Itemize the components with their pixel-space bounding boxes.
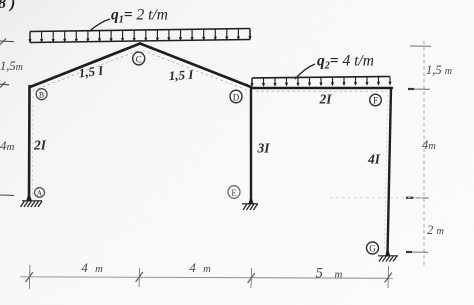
bottom dim tick at G bbox=[385, 266, 392, 288]
dashed fibre line left of right column bbox=[385, 95, 388, 250]
bottom dim tick at A bbox=[26, 265, 33, 289]
member C-D right rafter bbox=[140, 44, 251, 88]
node D bbox=[230, 90, 242, 103]
svg-text:D: D bbox=[233, 92, 240, 102]
page number 8) partial top-left bbox=[0, 0, 15, 12]
svg-text:4m: 4m bbox=[422, 138, 436, 152]
svg-text:1,5m: 1,5m bbox=[0, 59, 23, 73]
left dimension tick at base level bbox=[0, 194, 14, 196]
node F bbox=[370, 94, 382, 106]
node C bbox=[133, 52, 145, 65]
svg-text:A: A bbox=[37, 189, 43, 198]
member D-F beam bbox=[251, 87, 392, 89]
left dimension tick at eave level bbox=[0, 82, 9, 88]
q2 ticks and arrows bbox=[250, 77, 391, 87]
column A base flare bbox=[27, 193, 32, 201]
svg-text:2I: 2I bbox=[33, 138, 47, 153]
dashed fibre line under right rafter bbox=[143, 51, 249, 91]
svg-text:2I: 2I bbox=[318, 92, 332, 107]
right dim tick at G level bbox=[406, 251, 428, 253]
svg-text:3I: 3I bbox=[256, 141, 270, 156]
column G base flare bbox=[386, 248, 390, 256]
right dim tick at apex level bbox=[410, 45, 431, 47]
right dim tick at base level bbox=[406, 197, 429, 199]
right dim tick at beam level bbox=[408, 88, 430, 90]
svg-text:C: C bbox=[136, 54, 142, 64]
distributed load q1 band bbox=[30, 29, 250, 43]
column E base flare bbox=[249, 196, 253, 204]
svg-text:2 m: 2 m bbox=[427, 223, 444, 237]
bottom dim tick at C bbox=[136, 268, 143, 287]
svg-text:8: 8 bbox=[0, 0, 6, 12]
label q2 = 4 t/m bbox=[317, 53, 374, 72]
svg-text:1,5 m: 1,5 m bbox=[426, 63, 452, 77]
dashed fibre line under left rafter bbox=[33, 51, 139, 91]
svg-text:4I: 4I bbox=[367, 152, 381, 167]
support E fixed base bbox=[242, 204, 258, 210]
q1 ticks and arrows bbox=[28, 29, 251, 44]
distributed load q2 band bbox=[252, 77, 390, 87]
node B bbox=[36, 89, 47, 100]
right dimension line bbox=[423, 41, 425, 268]
member A-B left column bbox=[28, 86, 31, 200]
svg-text:B: B bbox=[39, 90, 44, 99]
svg-text:5 m: 5 m bbox=[316, 266, 343, 282]
leader line q2 bbox=[295, 64, 315, 79]
support G fixed base bbox=[378, 256, 398, 262]
member F-G right column bbox=[388, 88, 392, 255]
svg-text:F: F bbox=[373, 96, 378, 106]
node E bbox=[228, 186, 240, 199]
dashed fibre line right of left column bbox=[32, 96, 35, 196]
node A bbox=[35, 188, 45, 198]
svg-text:4m: 4m bbox=[0, 138, 15, 153]
label q1 = 2 t/m bbox=[111, 7, 168, 26]
bottom dim tick at E bbox=[248, 268, 255, 288]
support A fixed base bbox=[21, 201, 43, 207]
bottom dimension line bbox=[20, 277, 393, 279]
svg-text:G: G bbox=[369, 244, 376, 254]
dashed fibre line under beam D-F bbox=[256, 91, 387, 93]
left dimension tick at apex level bbox=[0, 39, 14, 45]
member D-E middle column bbox=[250, 87, 252, 203]
svg-text:E: E bbox=[231, 188, 237, 198]
svg-text:1,5 I: 1,5 I bbox=[78, 62, 105, 80]
member B-C left rafter bbox=[30, 44, 140, 88]
svg-text:): ) bbox=[8, 0, 15, 12]
svg-text:1,5 I: 1,5 I bbox=[168, 67, 194, 83]
leader line q1 bbox=[89, 19, 110, 32]
node G bbox=[367, 242, 379, 254]
ghost construction line at base level bbox=[330, 197, 424, 199]
